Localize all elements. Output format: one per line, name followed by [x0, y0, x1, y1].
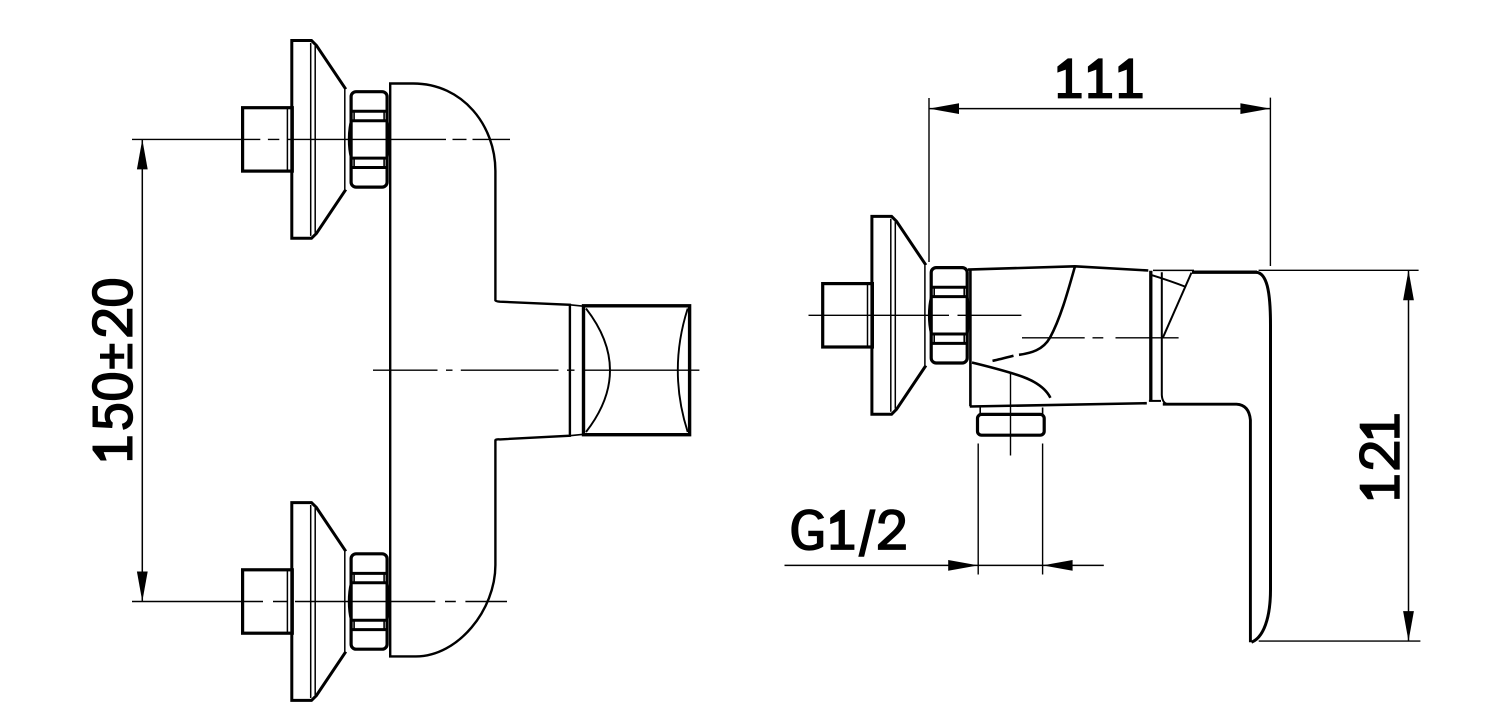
joint bottom connector [1149, 400, 1161, 402]
dim G1/2 extension left [977, 444, 979, 575]
centerline fitting axis [809, 314, 1022, 316]
handle outer edge [1252, 272, 1271, 642]
dim G1/2 line [785, 564, 1104, 566]
handle collar arc [1152, 275, 1186, 287]
text 111 [1057, 58, 1142, 98]
outlet collar [979, 408, 981, 415]
joint line [1149, 271, 1152, 401]
arrow up [137, 139, 148, 169]
swoosh upper [1019, 267, 1075, 355]
dim 121 extension bottom [1259, 640, 1421, 642]
bottom wall fitting [243, 503, 390, 701]
body outline [390, 84, 570, 657]
dim 121 line [1408, 270, 1410, 641]
swoosh lower [972, 363, 1050, 398]
centerline cartridge axis [1022, 337, 1179, 339]
cartridge cover edge [1162, 272, 1167, 404]
collar top edge [1153, 269, 1194, 271]
outlet nut [978, 414, 1045, 435]
handle base bottom edge and lever inner edge [1163, 404, 1251, 642]
arrow down [137, 572, 148, 602]
body left edge [969, 269, 972, 406]
text G1/2 [791, 509, 906, 557]
handle cup arc right [678, 309, 688, 433]
centerline handle axis [373, 369, 699, 371]
outlet axis [1010, 372, 1012, 456]
cartridge collar [569, 305, 571, 436]
centerline top fitting [132, 138, 510, 140]
dim 111 extension right [1269, 98, 1271, 266]
dimension 150±20 line [141, 139, 143, 601]
handle top edge [1192, 271, 1257, 274]
dim 121 extension top [1259, 269, 1419, 271]
body top edge [968, 266, 1148, 270]
centerline bottom fitting [132, 601, 507, 603]
body bottom edge [970, 403, 1147, 406]
handle cup arc left [586, 309, 610, 433]
handle end cap [584, 306, 690, 435]
side wall fitting [823, 216, 970, 414]
dim 111 line [929, 108, 1270, 110]
text 121 [1359, 414, 1400, 499]
dim 111 extension left [928, 98, 930, 262]
top wall fitting [243, 40, 390, 238]
handle neck slant [1163, 273, 1192, 338]
dim G1/2 extension right [1042, 444, 1044, 575]
text 150±20 [92, 279, 133, 461]
